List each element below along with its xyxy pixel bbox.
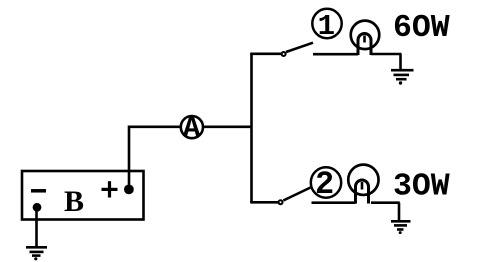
svg-text:B: B <box>64 185 84 218</box>
svg-text:3OW: 3OW <box>393 169 450 204</box>
svg-text:1: 1 <box>318 10 335 43</box>
svg-text:2: 2 <box>315 166 334 203</box>
svg-text:6OW: 6OW <box>393 11 450 46</box>
svg-text:A: A <box>183 112 201 145</box>
